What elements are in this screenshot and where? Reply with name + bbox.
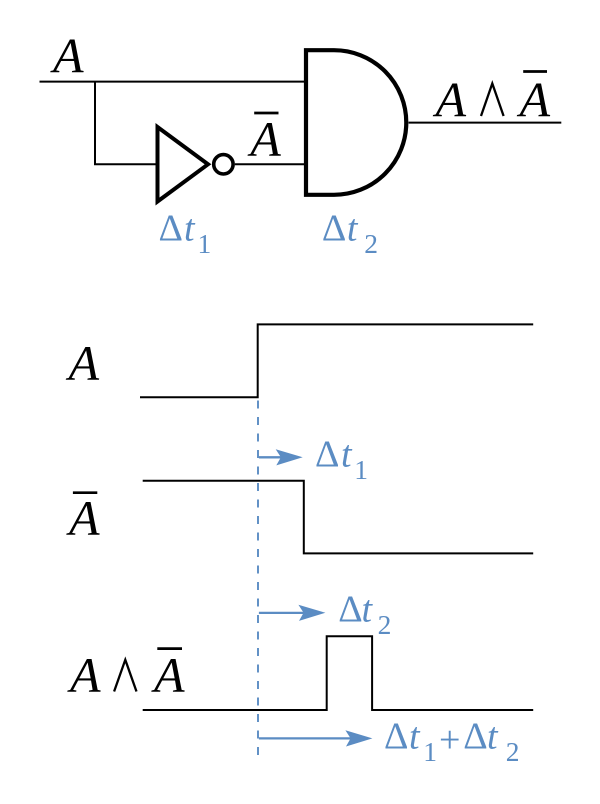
svg-text:+: +	[439, 719, 460, 761]
arrow delta t2 (timing)	[259, 605, 326, 621]
arrow delta t1 (timing)	[259, 449, 303, 465]
svg-text:A: A	[67, 647, 101, 703]
svg-text:t: t	[184, 208, 196, 250]
svg-text:1: 1	[423, 736, 437, 767]
wire inverter output to AND gate	[235, 163, 306, 165]
svg-text:Δ: Δ	[338, 589, 362, 631]
signal Abar label (timing)	[66, 490, 100, 546]
waveform A AND Abar with glitch pulse	[143, 636, 534, 710]
waveform A	[140, 324, 533, 397]
inverter U1 bubble	[214, 155, 233, 174]
delta t2 label (AND delay)	[322, 208, 378, 260]
svg-text:A: A	[517, 71, 551, 127]
svg-text:2: 2	[506, 736, 520, 767]
dashed reference line at transition	[257, 401, 259, 757]
waveform Abar	[143, 481, 534, 554]
svg-text:A: A	[66, 490, 100, 546]
wire AND output	[409, 122, 562, 124]
delta t1 label (inverter delay)	[159, 208, 212, 260]
wire branch to inverter	[95, 82, 157, 165]
svg-text:1: 1	[198, 228, 212, 259]
svg-text:Δ: Δ	[315, 434, 339, 476]
svg-text:A: A	[433, 71, 467, 127]
svg-text:A: A	[247, 111, 281, 167]
svg-text:A: A	[151, 647, 185, 703]
svg-text:t: t	[347, 208, 359, 250]
svg-text:t: t	[409, 715, 421, 757]
svg-text:Δ: Δ	[463, 715, 487, 757]
svg-text:t: t	[487, 715, 499, 757]
arrow delta t1 plus delta t2 (timing)	[259, 730, 373, 746]
svg-text:2: 2	[364, 228, 378, 259]
svg-text:2: 2	[378, 609, 392, 640]
svg-text:A: A	[66, 335, 100, 391]
svg-text:1: 1	[354, 454, 368, 485]
AND gate U2	[306, 50, 406, 195]
wire A input	[40, 81, 307, 83]
svg-text:Δ: Δ	[159, 208, 183, 250]
node A AND Abar output label	[433, 71, 551, 127]
svg-text:Δ: Δ	[384, 715, 408, 757]
inverter U1 triangle	[158, 127, 209, 202]
svg-text:A: A	[50, 28, 84, 84]
signal A AND Abar label (timing)	[67, 647, 185, 703]
delta t2 text (timing)	[338, 589, 391, 641]
node Abar label (circuit)	[247, 111, 281, 167]
delta t1 plus delta t2 text	[384, 715, 520, 767]
delta t1 text (timing)	[315, 434, 368, 486]
svg-text:t: t	[362, 589, 374, 631]
svg-text:t: t	[341, 434, 353, 476]
svg-text:Δ: Δ	[322, 208, 346, 250]
